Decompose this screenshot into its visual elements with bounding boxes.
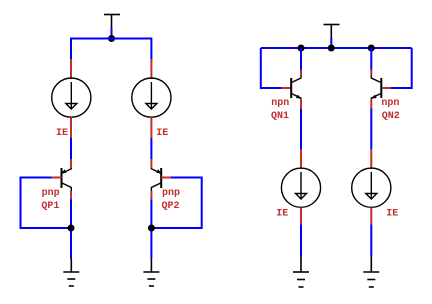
current source IE (left B) bottom lead: [150, 117, 152, 138]
transistor QN1 collector lead: [300, 70, 302, 76]
transistor QP2 emitter arrow: [156, 169, 161, 173]
transistor QP1 (pnp) emitter lead: [70, 159, 72, 168]
node junction dot left rail: [108, 35, 115, 42]
wire left top rail: [71, 39, 151, 60]
supply V1 (left battery/Vplus symbol): [104, 15, 120, 29]
transistor QP1 base lead: [52, 177, 62, 179]
node junction dot QN2 collector: [368, 45, 375, 52]
transistor QP1 body: [62, 168, 72, 191]
current source IE (right C) top lead: [300, 149, 302, 169]
svg-text:IE: IE: [276, 208, 288, 219]
svg-text:npn: npn: [381, 98, 399, 109]
transistor QN2 base lead: [383, 87, 392, 89]
wire QN2 collector from rail: [370, 48, 372, 70]
wire CS-C to ground: [300, 225, 302, 257]
transistor QN1 base lead: [282, 87, 292, 89]
current source IE (left A) bottom lead: [70, 117, 72, 138]
current source IE (right D) bottom lead: [370, 207, 372, 224]
transistor QP2 (pnp, mirrored) emitter lead: [150, 159, 152, 168]
current source IE (left A) top lead: [70, 59, 72, 79]
wire supply1 stem: [111, 28, 113, 39]
wire QN2 emitter down: [370, 108, 372, 149]
transistor QP2 base lead: [161, 177, 171, 179]
ground (left A): [63, 259, 79, 287]
node junction dot QN1 collector: [298, 45, 305, 52]
node junction dot rail center: [328, 45, 335, 52]
wire QN1 emitter down: [300, 109, 302, 149]
transistor QN1 emitter lead: [300, 100, 302, 109]
node junction dot QP1: [68, 225, 75, 232]
wire QP2 base loop: [151, 178, 201, 229]
transistor QN2 collector lead: [370, 70, 372, 76]
ground (right C): [293, 256, 309, 287]
wire QN1 base loop: [261, 48, 282, 88]
transistor QN2 emitter arrow: [371, 95, 376, 99]
svg-text:QN2: QN2: [382, 111, 400, 122]
current source IE (right D) top lead: [370, 149, 372, 169]
svg-text:IE: IE: [56, 128, 68, 139]
transistor QN1 body: [291, 75, 301, 100]
current source IE (right C) body: [281, 168, 320, 207]
transistor QN1 emitter arrow: [296, 95, 301, 99]
svg-text:npn: npn: [271, 98, 289, 109]
current source IE (left A) body: [52, 78, 91, 117]
svg-text:QN1: QN1: [271, 111, 289, 122]
svg-text:IE: IE: [156, 128, 168, 139]
ground (right D): [363, 256, 379, 287]
wire QP1 collector down: [70, 200, 72, 259]
transistor QP1 emitter arrow: [61, 169, 66, 173]
svg-text:pnp: pnp: [42, 188, 60, 199]
wire QP2 collector down: [150, 200, 152, 259]
wire CS-B to QP2: [150, 138, 152, 159]
current source IE (right C) bottom lead: [300, 207, 302, 224]
svg-text:QP2: QP2: [162, 201, 180, 212]
current source IE (right D) body: [352, 168, 391, 207]
svg-text:IE: IE: [386, 208, 398, 219]
transistor QP2 collector lead: [150, 191, 152, 200]
transistor QN2 body: [371, 75, 381, 100]
wire QP1 base loop: [21, 178, 72, 229]
wire CS-D to ground: [370, 225, 372, 257]
wire QN1 collector from rail: [300, 48, 302, 70]
wire right top rail: [261, 47, 412, 49]
wire CS-A to QP1: [70, 138, 72, 159]
svg-text:pnp: pnp: [162, 188, 180, 199]
svg-text:QP1: QP1: [41, 201, 59, 212]
node junction dot QP2: [148, 225, 155, 232]
transistor QP2 body: [151, 168, 161, 191]
transistor QN2 emitter lead: [370, 100, 372, 109]
current source IE (left B) body: [132, 78, 171, 117]
ground (left B): [143, 259, 159, 287]
wire supply2 stem: [330, 38, 332, 49]
wire QN2 base loop: [391, 48, 412, 88]
transistor QP1 collector lead: [70, 191, 72, 200]
current source IE (left B) top lead: [150, 59, 152, 79]
supply V2 (right): [324, 25, 340, 39]
